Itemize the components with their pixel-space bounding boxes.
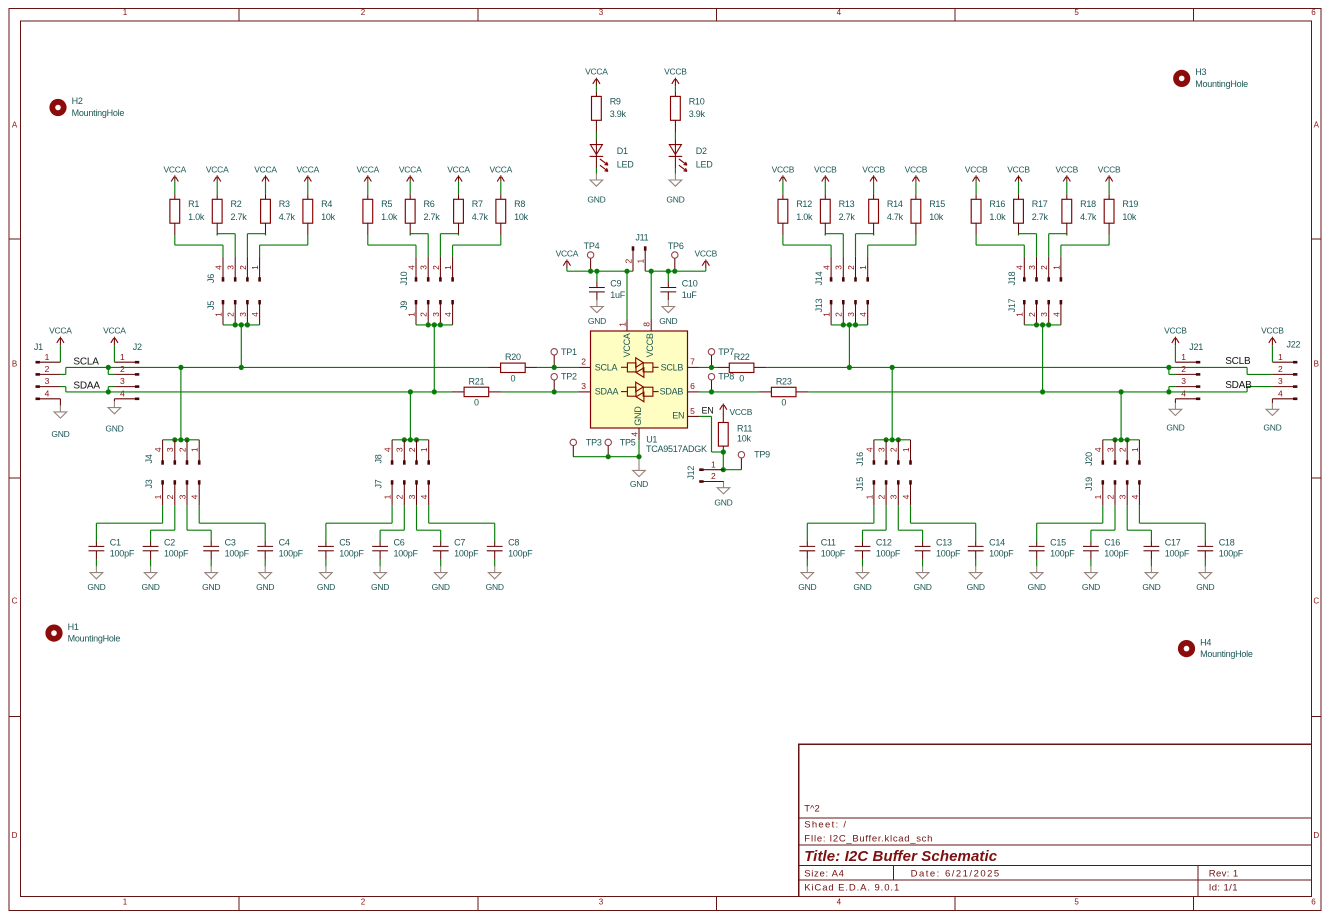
wire J19 pin to C15 bbox=[1037, 505, 1103, 541]
wire J9 common bracket bbox=[416, 325, 453, 392]
svg-text:VCCA: VCCA bbox=[163, 164, 186, 174]
svg-text:1.0k: 1.0k bbox=[796, 212, 813, 222]
ground C8 bbox=[486, 566, 504, 592]
svg-text:1: 1 bbox=[1130, 447, 1140, 452]
svg-text:J1: J1 bbox=[34, 342, 43, 352]
svg-text:VCCA: VCCA bbox=[399, 164, 422, 174]
svg-text:J6: J6 bbox=[206, 274, 216, 283]
mounting hole H1 bbox=[45, 622, 120, 644]
test point TP8 bbox=[708, 372, 734, 392]
junction bank at bus bbox=[408, 389, 413, 394]
label SDAA bbox=[73, 381, 100, 392]
svg-text:GND: GND bbox=[798, 582, 816, 592]
resistor R4 10k bbox=[303, 194, 336, 235]
wire SCLB bus bbox=[700, 366, 1247, 368]
svg-text:2: 2 bbox=[1118, 447, 1128, 452]
svg-text:R14: R14 bbox=[887, 199, 903, 209]
ground C13 bbox=[914, 566, 932, 592]
svg-text:SDAB: SDAB bbox=[660, 387, 684, 397]
junction TP1 bbox=[552, 365, 557, 370]
power VCCA above R6 bbox=[399, 164, 422, 194]
svg-text:VCCB: VCCB bbox=[730, 407, 753, 417]
resistor R6 2.7k bbox=[405, 194, 440, 235]
wire EN pin5 to R11 bbox=[700, 416, 724, 452]
svg-text:J18: J18 bbox=[1007, 271, 1017, 285]
svg-text:2: 2 bbox=[165, 494, 175, 499]
ground C9 bbox=[588, 300, 606, 326]
svg-text:3: 3 bbox=[1105, 447, 1115, 452]
power VCCA above R5 bbox=[356, 164, 379, 194]
svg-text:GND: GND bbox=[666, 194, 684, 204]
svg-text:4: 4 bbox=[153, 447, 163, 452]
svg-text:H3: H3 bbox=[1195, 67, 1206, 77]
svg-text:R17: R17 bbox=[1032, 199, 1048, 209]
junction bank at bus bbox=[432, 389, 437, 394]
svg-text:C4: C4 bbox=[279, 538, 290, 548]
svg-text:6: 6 bbox=[690, 381, 695, 391]
svg-text:100pF: 100pF bbox=[279, 549, 304, 559]
svg-text:4: 4 bbox=[1278, 388, 1283, 398]
wire J19 pin to C16 bbox=[1091, 505, 1115, 541]
svg-text:VCCB: VCCB bbox=[772, 164, 795, 174]
junction J21 pin2 on SCLB bbox=[1166, 365, 1171, 370]
svg-text:GND: GND bbox=[105, 424, 123, 434]
junction bank at bus bbox=[847, 365, 852, 370]
svg-text:VCCB: VCCB bbox=[905, 164, 928, 174]
svg-text:6: 6 bbox=[1311, 898, 1316, 907]
svg-text:H4: H4 bbox=[1200, 637, 1211, 647]
ground J12 bbox=[714, 482, 732, 508]
svg-text:3: 3 bbox=[1118, 494, 1128, 499]
wire R16 to J18 pin bbox=[976, 235, 1024, 256]
svg-text:C14: C14 bbox=[989, 538, 1005, 548]
ground C18 bbox=[1196, 566, 1214, 592]
power VCCB above R13 bbox=[814, 164, 837, 194]
svg-text:J3: J3 bbox=[144, 479, 154, 488]
svg-text:TCA9517ADGK: TCA9517ADGK bbox=[646, 444, 707, 454]
connector J7 bbox=[373, 479, 430, 505]
svg-text:2: 2 bbox=[238, 265, 248, 270]
svg-text:R12: R12 bbox=[796, 199, 812, 209]
test point TP6 bbox=[668, 241, 684, 271]
svg-text:GND: GND bbox=[432, 582, 450, 592]
svg-text:100pF: 100pF bbox=[164, 549, 189, 559]
svg-text:GND: GND bbox=[486, 582, 504, 592]
svg-text:3: 3 bbox=[431, 312, 441, 317]
wire J3 pin to C2 bbox=[151, 505, 175, 541]
svg-text:Size: A4: Size: A4 bbox=[804, 868, 844, 879]
junction J8 pins bbox=[402, 437, 419, 442]
junction bank at bus bbox=[239, 365, 244, 370]
svg-text:10k: 10k bbox=[1122, 212, 1137, 222]
svg-text:8: 8 bbox=[642, 322, 652, 327]
resistor R13 2.7k bbox=[820, 194, 855, 235]
wire U1 pin4 to ground bbox=[638, 440, 640, 457]
ground J2 bbox=[105, 399, 123, 434]
U1 pin 1 VCCA bbox=[617, 319, 632, 358]
svg-text:1: 1 bbox=[1015, 312, 1025, 317]
svg-text:R18: R18 bbox=[1080, 199, 1096, 209]
resistor R23 0 bbox=[759, 376, 808, 407]
svg-text:1: 1 bbox=[1181, 352, 1186, 362]
svg-text:R1: R1 bbox=[188, 199, 199, 209]
svg-text:R16: R16 bbox=[989, 199, 1005, 209]
svg-text:6: 6 bbox=[1311, 8, 1316, 17]
svg-text:R23: R23 bbox=[776, 376, 792, 386]
svg-text:R8: R8 bbox=[514, 199, 525, 209]
capacitor C16 100pF bbox=[1083, 538, 1129, 567]
svg-text:SDAB: SDAB bbox=[1225, 380, 1252, 391]
svg-text:3: 3 bbox=[1039, 312, 1049, 317]
svg-text:1: 1 bbox=[120, 352, 125, 362]
label U1 value TCA9517ADGK bbox=[646, 444, 707, 454]
svg-text:TP4: TP4 bbox=[584, 241, 600, 251]
wire J1 pin2 to SCLA bbox=[60, 367, 65, 374]
power VCCA above R1 bbox=[163, 164, 186, 194]
svg-text:SDAA: SDAA bbox=[73, 381, 100, 392]
svg-text:VCCB: VCCB bbox=[1164, 326, 1187, 336]
svg-text:J14: J14 bbox=[814, 271, 824, 285]
ground C7 bbox=[432, 566, 450, 592]
svg-text:4: 4 bbox=[419, 494, 429, 499]
power VCCA above R3 bbox=[254, 164, 277, 194]
svg-text:4: 4 bbox=[213, 265, 223, 270]
junction J4 pins bbox=[172, 437, 189, 442]
svg-text:5: 5 bbox=[1074, 898, 1079, 907]
svg-text:2: 2 bbox=[1181, 364, 1186, 374]
power VCCB rail bbox=[694, 249, 717, 272]
ground C14 bbox=[967, 566, 985, 592]
svg-text:R2: R2 bbox=[231, 199, 242, 209]
wire VCCB rail bbox=[645, 270, 706, 272]
svg-text:LED: LED bbox=[696, 159, 714, 169]
wire J22 pin3 jog from SDAB bbox=[1247, 387, 1272, 392]
svg-text:C16: C16 bbox=[1104, 538, 1120, 548]
connector J13 bbox=[814, 298, 869, 325]
wire J1 pin3 to SDAA bbox=[60, 387, 65, 392]
svg-text:VCCB: VCCB bbox=[694, 249, 717, 259]
svg-text:J21: J21 bbox=[1189, 342, 1203, 352]
junction C10 top bbox=[666, 269, 671, 274]
power VCCA above R4 bbox=[296, 164, 319, 194]
wire R17 to J18 pin bbox=[1019, 234, 1037, 257]
svg-text:4: 4 bbox=[250, 312, 260, 317]
wire R5 to J10 pin bbox=[368, 235, 416, 256]
svg-text:1: 1 bbox=[190, 447, 200, 452]
svg-text:4: 4 bbox=[443, 312, 453, 317]
svg-text:3: 3 bbox=[407, 494, 417, 499]
ground J1 bbox=[51, 399, 69, 439]
svg-text:3: 3 bbox=[889, 494, 899, 499]
junction bank at bus bbox=[178, 365, 183, 370]
resistor R10 3.9k bbox=[671, 91, 706, 132]
svg-text:3: 3 bbox=[834, 265, 844, 270]
svg-text:4: 4 bbox=[190, 494, 200, 499]
svg-text:1: 1 bbox=[901, 447, 911, 452]
svg-text:C9: C9 bbox=[610, 279, 621, 289]
svg-text:VCCA: VCCA bbox=[356, 164, 379, 174]
wire J15 pin to C14 bbox=[911, 505, 976, 541]
power VCCB above R11 bbox=[720, 404, 753, 418]
ground C4 bbox=[256, 566, 274, 592]
power VCCB above R14 bbox=[862, 164, 885, 194]
svg-text:4: 4 bbox=[858, 312, 868, 317]
svg-text:4: 4 bbox=[45, 388, 50, 398]
svg-text:SCLB: SCLB bbox=[661, 362, 684, 372]
capacitor C6 100pF bbox=[372, 538, 418, 567]
wire J21 pin2 to SCLB bbox=[1169, 367, 1176, 374]
svg-text:J7: J7 bbox=[373, 479, 383, 488]
test point TP2 bbox=[551, 372, 577, 392]
svg-text:C18: C18 bbox=[1219, 538, 1235, 548]
resistor R5 1.0k bbox=[363, 194, 398, 235]
connector J18 bbox=[1007, 257, 1062, 286]
U1 pin 7 SCLB bbox=[661, 357, 700, 373]
svg-text:2: 2 bbox=[623, 258, 633, 263]
wire J3 pin to C1 bbox=[96, 505, 162, 541]
junction J21 pin3 on SDAB bbox=[1166, 389, 1171, 394]
junction J13 pins bbox=[841, 322, 858, 327]
svg-text:D2: D2 bbox=[696, 146, 707, 156]
svg-text:2: 2 bbox=[361, 898, 366, 907]
wire J19 pin to C17 bbox=[1127, 505, 1151, 541]
svg-text:VCCA: VCCA bbox=[489, 164, 512, 174]
wire R9 to D1 bbox=[595, 133, 597, 157]
svg-text:1: 1 bbox=[123, 898, 128, 907]
svg-text:0: 0 bbox=[739, 373, 744, 383]
svg-text:2: 2 bbox=[711, 471, 716, 481]
wire J17 common bracket bbox=[1024, 325, 1061, 392]
svg-text:3: 3 bbox=[599, 898, 604, 907]
capacitor C1 100pF bbox=[89, 538, 135, 567]
power VCCA rail bbox=[556, 249, 579, 272]
ground U1 bbox=[630, 457, 648, 490]
svg-text:VCCA: VCCA bbox=[206, 164, 229, 174]
svg-text:KiCad E.D.A. 9.0.1: KiCad E.D.A. 9.0.1 bbox=[804, 882, 900, 893]
svg-text:1: 1 bbox=[419, 447, 429, 452]
resistor R19 10k bbox=[1104, 194, 1138, 235]
svg-text:2.7k: 2.7k bbox=[424, 212, 441, 222]
junction bank at bus bbox=[890, 365, 895, 370]
power VCCA J1 bbox=[49, 326, 72, 363]
svg-text:2: 2 bbox=[177, 447, 187, 452]
connector J4 bbox=[144, 440, 201, 465]
label SCLA bbox=[73, 356, 99, 367]
junction pin4 wire bbox=[636, 454, 641, 459]
svg-text:1uF: 1uF bbox=[610, 290, 626, 300]
junction TP5 bbox=[606, 454, 611, 459]
capacitor C17 100pF bbox=[1144, 538, 1190, 567]
svg-text:10k: 10k bbox=[737, 433, 752, 443]
capacitor C15 100pF bbox=[1029, 538, 1075, 567]
svg-text:C: C bbox=[12, 597, 18, 606]
capacitor C10 1uF bbox=[660, 271, 697, 300]
svg-text:4.7k: 4.7k bbox=[887, 212, 904, 222]
wire J2 pin2 to SCLA bbox=[108, 367, 114, 374]
svg-text:VCCA: VCCA bbox=[585, 67, 608, 77]
svg-text:1: 1 bbox=[45, 352, 50, 362]
svg-text:1: 1 bbox=[250, 265, 260, 270]
svg-text:GND: GND bbox=[51, 429, 69, 439]
power VCCB above R19 bbox=[1098, 164, 1121, 194]
ground C2 bbox=[142, 566, 160, 592]
svg-text:GND: GND bbox=[633, 406, 643, 426]
svg-text:J16: J16 bbox=[855, 452, 865, 466]
wire bus tap to J16 bbox=[874, 367, 911, 439]
svg-text:100pF: 100pF bbox=[989, 549, 1014, 559]
power VCCB J21 bbox=[1164, 326, 1187, 363]
svg-text:1: 1 bbox=[1051, 265, 1061, 270]
svg-text:VCCB: VCCB bbox=[645, 333, 655, 357]
svg-text:4.7k: 4.7k bbox=[1080, 212, 1097, 222]
svg-text:J10: J10 bbox=[399, 271, 409, 285]
svg-text:1: 1 bbox=[617, 322, 627, 327]
svg-text:J8: J8 bbox=[373, 454, 383, 463]
resistor R9 3.9k bbox=[592, 91, 627, 132]
svg-text:Title: I2C Buffer Schematic: Title: I2C Buffer Schematic bbox=[804, 848, 998, 865]
svg-text:J17: J17 bbox=[1007, 298, 1017, 312]
svg-text:4: 4 bbox=[629, 432, 639, 437]
svg-text:J5: J5 bbox=[206, 301, 216, 310]
svg-text:R19: R19 bbox=[1122, 199, 1138, 209]
op-amp U1 TCA9517ADGK body bbox=[591, 331, 688, 428]
test point TP7 bbox=[708, 347, 734, 368]
svg-text:C7: C7 bbox=[454, 538, 465, 548]
svg-text:3: 3 bbox=[226, 265, 236, 270]
svg-text:C1: C1 bbox=[110, 538, 121, 548]
svg-text:SCLB: SCLB bbox=[1225, 356, 1251, 367]
junction U1 pin1 bbox=[624, 269, 629, 274]
junction J2 pin3 on SDAA bbox=[106, 389, 111, 394]
junction J2 pin2 on SCLA bbox=[106, 365, 111, 370]
label U1 reference bbox=[646, 435, 657, 445]
mounting hole H3 bbox=[1173, 67, 1248, 89]
svg-text:100pF: 100pF bbox=[1050, 549, 1075, 559]
connector J22 bbox=[1272, 340, 1300, 401]
svg-text:7: 7 bbox=[690, 357, 695, 367]
svg-text:100pF: 100pF bbox=[1165, 549, 1190, 559]
svg-text:C6: C6 bbox=[394, 538, 405, 548]
capacitor C14 100pF bbox=[968, 538, 1014, 567]
label SDAB bbox=[1225, 380, 1252, 391]
svg-text:C11: C11 bbox=[821, 538, 836, 548]
svg-text:VCCA: VCCA bbox=[556, 249, 579, 259]
svg-text:10k: 10k bbox=[929, 212, 944, 222]
svg-text:R9: R9 bbox=[610, 96, 621, 106]
ground C11 bbox=[798, 566, 816, 592]
svg-text:J15: J15 bbox=[855, 477, 865, 491]
U1 pin 6 SDAB bbox=[660, 381, 700, 397]
svg-text:C2: C2 bbox=[164, 538, 175, 548]
svg-text:B: B bbox=[12, 360, 17, 369]
capacitor C4 100pF bbox=[257, 538, 303, 567]
svg-text:1: 1 bbox=[153, 494, 163, 499]
svg-text:1: 1 bbox=[213, 312, 223, 317]
svg-text:3: 3 bbox=[45, 376, 50, 386]
power VCCA above R9 bbox=[585, 67, 608, 92]
resistor R22 0 bbox=[717, 352, 766, 383]
svg-text:5: 5 bbox=[1074, 8, 1079, 17]
ground J22 bbox=[1263, 399, 1281, 433]
svg-text:3: 3 bbox=[238, 312, 248, 317]
resistor R1 1.0k bbox=[170, 194, 205, 235]
wire R19 to J18 pin bbox=[1061, 235, 1109, 256]
U1 pin 3 SDAA bbox=[578, 381, 618, 397]
svg-text:R5: R5 bbox=[381, 199, 392, 209]
svg-text:D: D bbox=[1313, 831, 1319, 840]
wire J7 pin to C5 bbox=[326, 505, 392, 541]
junction TP4 bbox=[588, 269, 593, 274]
wire J7 pin to C6 bbox=[380, 505, 404, 541]
svg-text:2: 2 bbox=[120, 364, 125, 374]
svg-text:100pF: 100pF bbox=[394, 549, 419, 559]
svg-text:VCCB: VCCB bbox=[965, 164, 988, 174]
svg-text:1uF: 1uF bbox=[682, 290, 698, 300]
svg-text:GND: GND bbox=[256, 582, 274, 592]
wire SDAB bus bbox=[700, 391, 1247, 393]
junction TP7 bbox=[709, 365, 714, 370]
svg-text:C8: C8 bbox=[508, 538, 519, 548]
wire J2 pin3 to SDAA bbox=[108, 387, 114, 392]
wire J7 pin to C8 bbox=[429, 505, 495, 541]
svg-text:R4: R4 bbox=[321, 199, 332, 209]
svg-text:2: 2 bbox=[581, 357, 586, 367]
ground C16 bbox=[1082, 566, 1100, 592]
mounting hole H4 bbox=[1178, 637, 1253, 659]
capacitor C5 100pF bbox=[318, 538, 364, 567]
svg-text:10k: 10k bbox=[321, 212, 336, 222]
svg-text:VCCB: VCCB bbox=[862, 164, 885, 174]
test point TP1 bbox=[551, 347, 577, 368]
wire R3 to J6 pin bbox=[247, 234, 265, 257]
svg-text:R13: R13 bbox=[839, 199, 855, 209]
connector J3 bbox=[144, 479, 201, 505]
ground C6 bbox=[371, 566, 389, 592]
svg-text:0: 0 bbox=[474, 398, 479, 408]
svg-text:LED: LED bbox=[617, 159, 635, 169]
svg-text:GND: GND bbox=[317, 582, 335, 592]
svg-text:TP8: TP8 bbox=[718, 372, 734, 382]
svg-text:R20: R20 bbox=[505, 352, 521, 362]
svg-text:4: 4 bbox=[837, 8, 842, 17]
svg-text:2: 2 bbox=[407, 447, 417, 452]
svg-text:VCCA: VCCA bbox=[103, 326, 126, 336]
svg-text:1: 1 bbox=[383, 494, 393, 499]
svg-text:4: 4 bbox=[406, 265, 416, 270]
svg-text:3.9k: 3.9k bbox=[610, 109, 627, 119]
ground C10 bbox=[659, 300, 677, 326]
svg-text:4: 4 bbox=[1093, 447, 1103, 452]
connector J19 bbox=[1084, 477, 1141, 505]
svg-text:GND: GND bbox=[1196, 582, 1214, 592]
svg-text:T^2: T^2 bbox=[804, 803, 820, 814]
wire bus tap to J20 bbox=[1103, 392, 1140, 440]
resistor R17 2.7k bbox=[1014, 194, 1049, 235]
svg-text:C13: C13 bbox=[936, 538, 952, 548]
svg-text:C12: C12 bbox=[876, 538, 892, 548]
svg-text:1: 1 bbox=[1278, 352, 1283, 362]
resistor R20 0 bbox=[489, 352, 538, 383]
svg-text:R11: R11 bbox=[737, 423, 752, 433]
buffer symbol inside U1 bbox=[621, 358, 659, 378]
LED D2 bbox=[669, 145, 714, 172]
wire J21 pin3 to SDAB bbox=[1169, 387, 1176, 392]
svg-text:MountingHole: MountingHole bbox=[72, 108, 125, 118]
svg-text:2: 2 bbox=[361, 8, 366, 17]
wire J3 pin to C4 bbox=[199, 505, 265, 541]
title block bbox=[799, 744, 1312, 896]
power VCCB J22 bbox=[1261, 326, 1284, 363]
